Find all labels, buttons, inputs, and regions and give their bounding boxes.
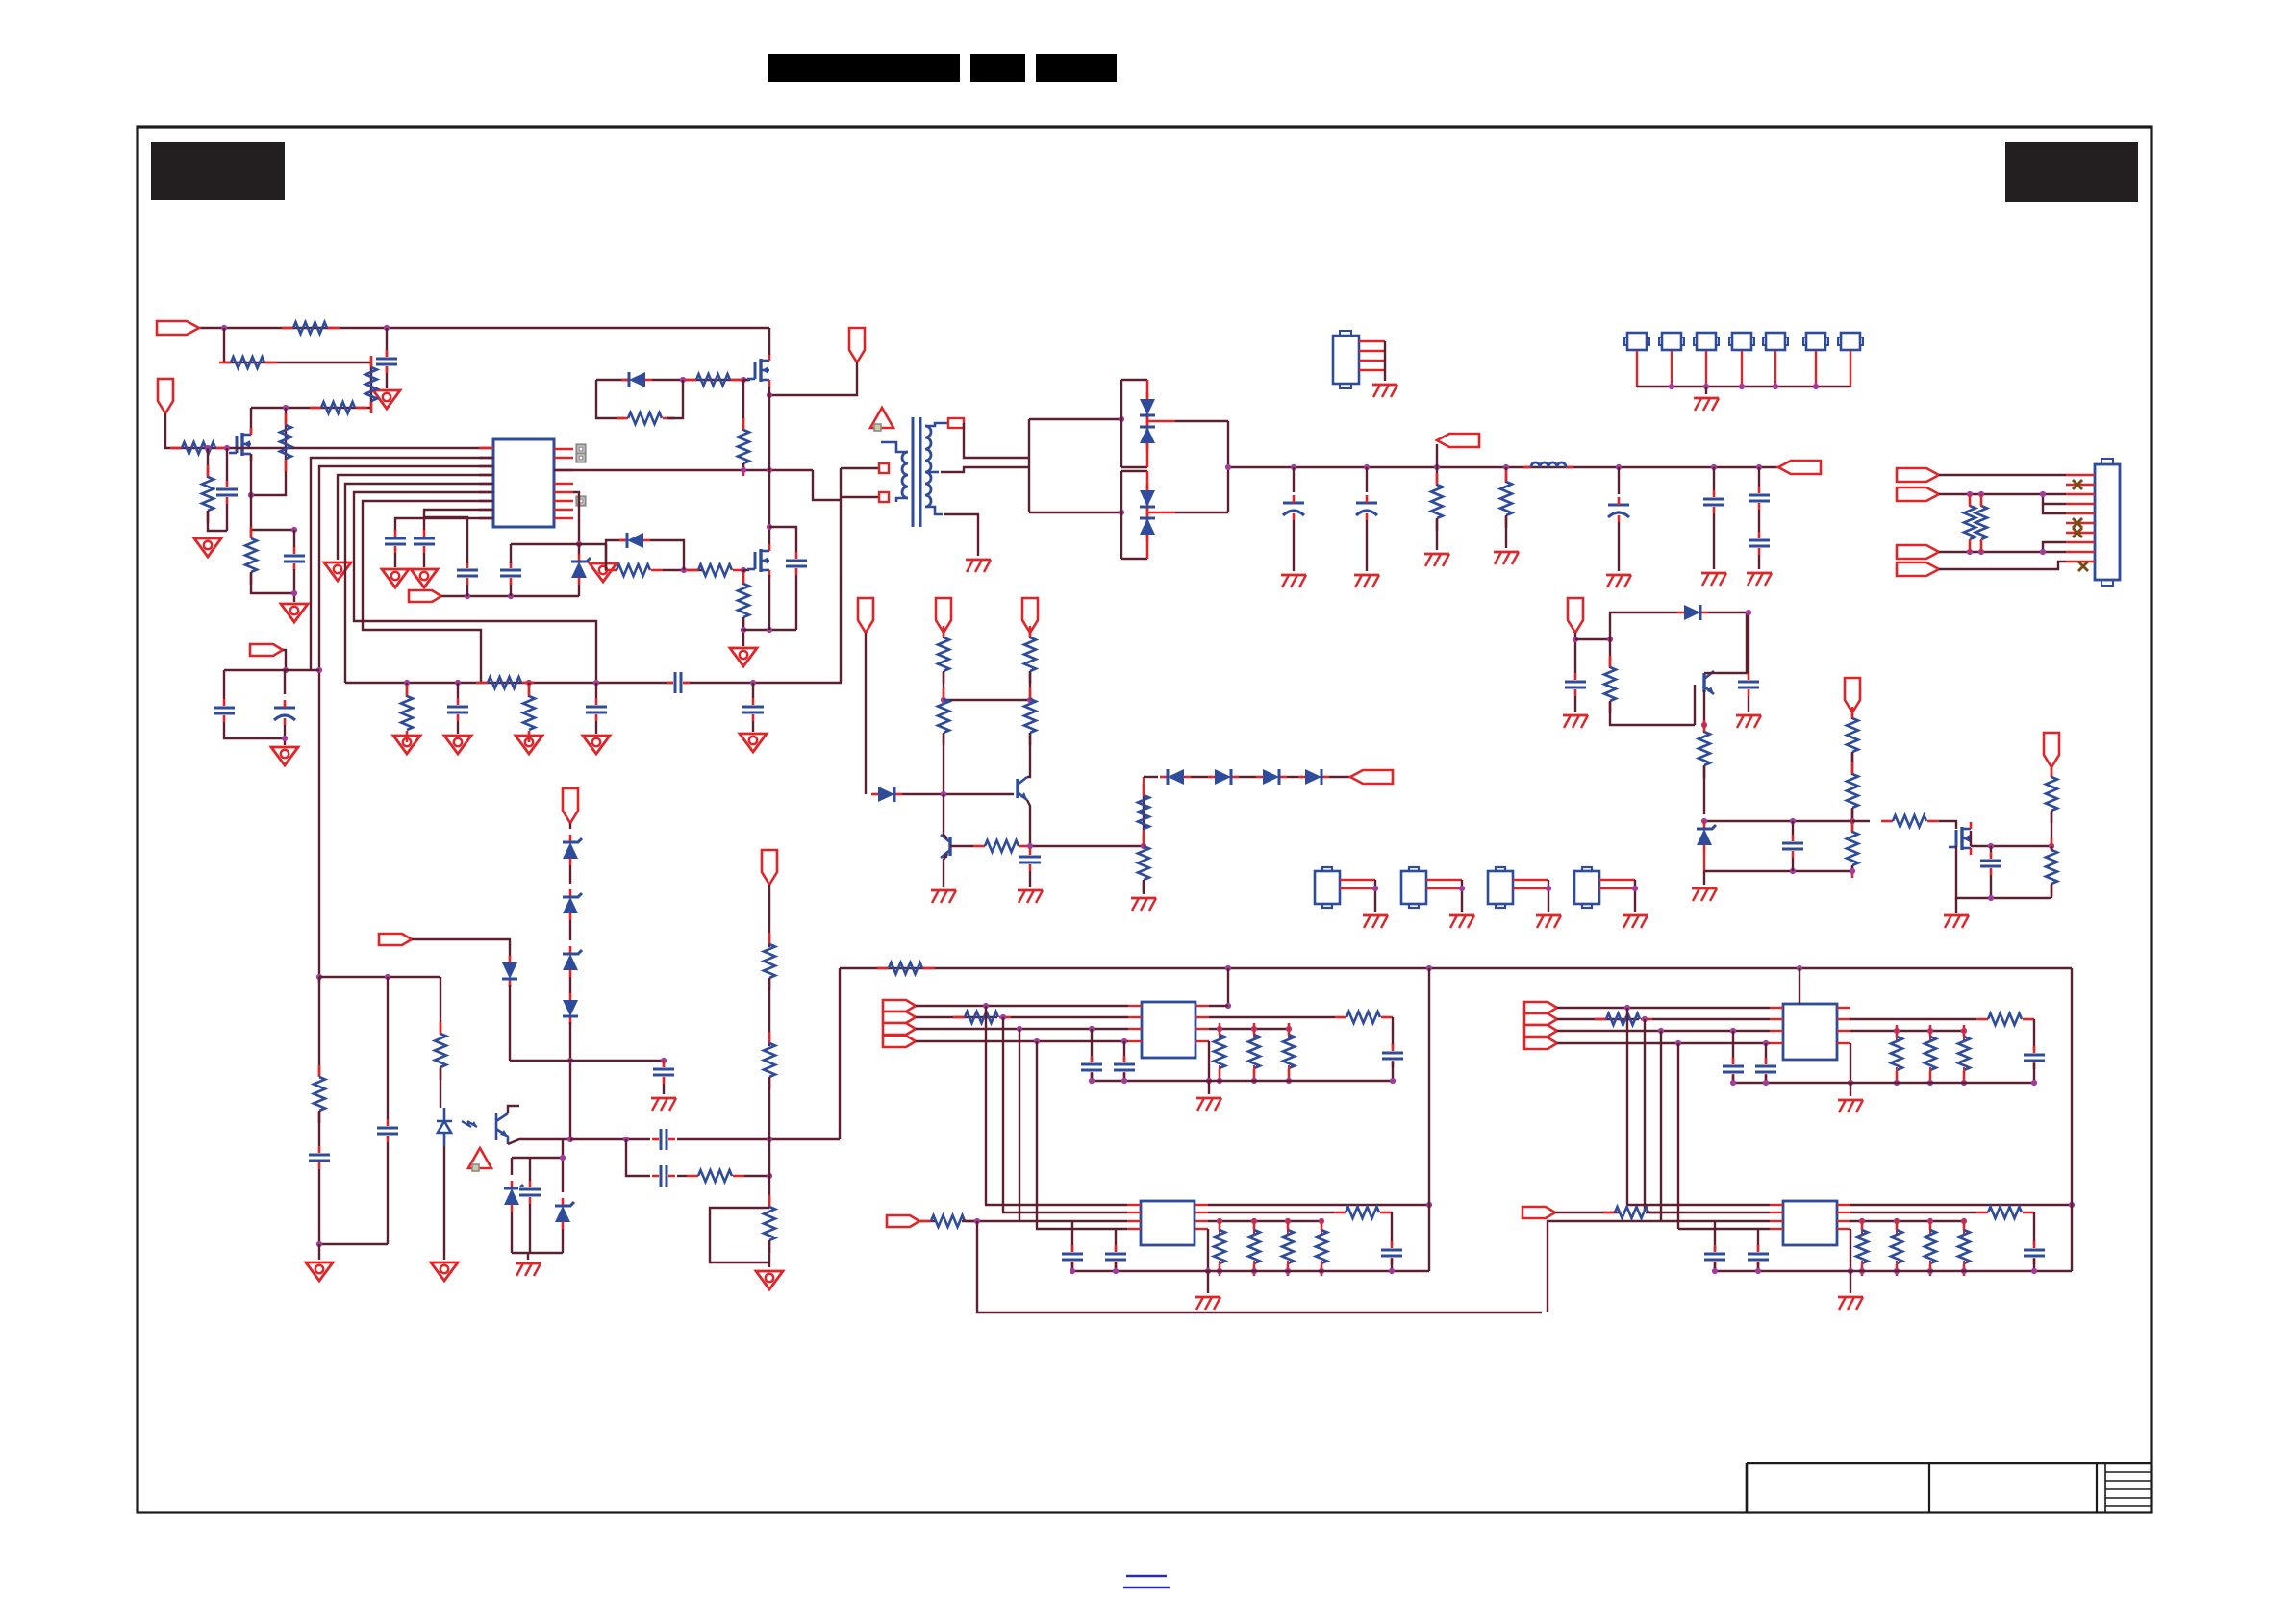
junction (455, 680, 461, 686)
wire diode chain (1144, 776, 1158, 778)
pin regb L3 (1770, 1220, 1783, 1222)
jumper JV4 (1574, 867, 1599, 908)
wire col458 (440, 977, 441, 1035)
earth ground (966, 560, 991, 572)
wire cn loop2 (2043, 542, 2066, 552)
wire regb r2 (1850, 1212, 1976, 1213)
wire c branch3 b (752, 721, 754, 732)
pin U1 left y503 (479, 483, 493, 486)
junction (1426, 965, 1432, 971)
wire opto out row (508, 1139, 570, 1144)
wire auxr col3 (1851, 808, 1853, 821)
resistor R loadb (1316, 1218, 1327, 1276)
wire br1566 (1505, 467, 1507, 483)
earth ground (1449, 915, 1474, 928)
wire refcol2 (509, 985, 511, 1061)
wire regb l2 (1002, 1212, 1127, 1213)
wire fb loop left (223, 670, 225, 699)
wire rect right col (1227, 421, 1229, 512)
rfbd stub (1143, 846, 1145, 847)
earth ground (1701, 573, 1726, 586)
wire caux2 top (1748, 612, 1749, 673)
wire M1 source col (768, 387, 770, 546)
resistor R load (1891, 1025, 1902, 1083)
pin J2 (1636, 351, 1638, 387)
pin reg R4 (1195, 1040, 1209, 1042)
junction (1894, 1218, 1900, 1224)
inductor L out (1523, 462, 1573, 467)
junction (526, 680, 532, 686)
rb stub2 (1287, 1261, 1289, 1271)
earth ground (1018, 890, 1043, 903)
wire caux2 bot (1748, 696, 1749, 712)
pin JP1 1 (1359, 340, 1385, 342)
link underline 2 (1123, 1587, 1170, 1589)
wire col800b (768, 1240, 770, 1267)
wire reg tap4 (1036, 1041, 1038, 1229)
wire zen col2 (578, 585, 580, 596)
wire row2 (224, 328, 371, 362)
wire loop800 (710, 1208, 769, 1262)
junction (1848, 1080, 1853, 1086)
wire reg r2c (2033, 1063, 2035, 1083)
wire tapA red (1147, 420, 1175, 423)
diode D ch4 (1298, 769, 1329, 785)
wire M1 drain (768, 328, 770, 355)
capacitor C out4 (1702, 490, 1725, 513)
diode D fb (871, 787, 902, 802)
wire fb out row (1031, 845, 1144, 847)
pin reg R2 (1195, 1016, 1209, 1018)
wire reg capcol (1765, 1043, 1767, 1063)
resistor R row3 (310, 402, 367, 413)
ground (411, 569, 438, 587)
pin CN y504 (2066, 484, 2095, 486)
junction (1813, 384, 1819, 389)
rb stub (1929, 1221, 1931, 1234)
jumper J2 (1624, 333, 1649, 350)
junction (567, 1137, 573, 1142)
wire row1223 (626, 1139, 650, 1176)
junction (1797, 965, 1802, 971)
resistor R comp (476, 677, 534, 688)
net flag CN b (1897, 487, 1939, 501)
wire fb row (224, 669, 319, 671)
wire zl2 (569, 865, 571, 884)
wire c branch b (457, 721, 459, 734)
page border (138, 127, 2152, 1512)
no-connect X (2073, 480, 2082, 489)
wire regb l1 (985, 1204, 1127, 1206)
junction (1027, 697, 1033, 703)
redaction bar 3 (1036, 54, 1117, 82)
wire regb gnd (1207, 1271, 1209, 1293)
wire rect innerA (1120, 380, 1122, 467)
wire reg capcol2 (1765, 1075, 1767, 1083)
wire ss capB top (510, 544, 512, 563)
wire gate pulldown hi b (742, 463, 744, 470)
junction (1756, 464, 1762, 470)
junction (741, 567, 746, 573)
transistor Q aux (NPN) (1704, 671, 1714, 694)
wire zb left2 (511, 1212, 513, 1253)
wire rm3c bot (2051, 884, 2052, 898)
wire regb riser (1548, 1221, 1770, 1312)
junction (1703, 384, 1709, 389)
junction (1372, 886, 1378, 891)
wire sec bot (944, 514, 978, 556)
ground (306, 1262, 333, 1281)
pin JV4 b (1599, 887, 1635, 889)
pin J3 (1671, 351, 1673, 387)
wire lo snub right (650, 540, 684, 570)
wire q coll (1704, 672, 1718, 674)
net flag SS (409, 590, 441, 602)
wire upper snub top2 (652, 379, 750, 381)
diode D rect1a (1140, 392, 1155, 423)
wire reg capcol2 (1123, 1073, 1125, 1081)
junction (316, 667, 322, 673)
rb stub2 (1963, 1261, 1965, 1271)
rb stub (1861, 1221, 1863, 1234)
pin JV1 b (1340, 887, 1375, 889)
pin reg L1 (1770, 1007, 1783, 1009)
pin U1 left y466 (479, 447, 493, 450)
wire regb r1 (1850, 1204, 2072, 1206)
rb stub2 (1896, 1261, 1898, 1271)
no-connect X (2073, 518, 2082, 528)
wire sec top (964, 423, 1029, 458)
wire rect innerB (1120, 471, 1122, 559)
junction (1225, 965, 1231, 971)
net flag vreg (762, 850, 777, 885)
wire comp row2 (481, 682, 842, 684)
wire reg gnd (1208, 1081, 1210, 1094)
capacitor C reg out (1381, 1044, 1404, 1067)
resistor R fb3 (1024, 626, 1036, 684)
wire q2 base row (950, 845, 973, 847)
wire reg tap3 (1019, 1029, 1020, 1221)
junction (1850, 868, 1855, 874)
wire reg tap2 (1644, 1019, 1646, 1212)
wire JV3 (1548, 880, 1549, 912)
zener D prot2 (571, 554, 591, 585)
net flag reg in3 (883, 1023, 916, 1035)
wire regb capcol2 (1714, 1262, 1716, 1271)
junction (1894, 1080, 1900, 1086)
resistor R regb in (919, 1215, 977, 1227)
wire prim bot (841, 496, 879, 498)
junction (661, 1058, 667, 1063)
junction (1503, 464, 1509, 470)
wire row1007 main (840, 967, 2072, 969)
wire zb left (511, 1158, 513, 1175)
junction (1286, 1078, 1292, 1084)
wire row1223c (744, 1175, 769, 1177)
zener D zb1 (504, 1181, 523, 1212)
junction (465, 593, 470, 599)
pin JV2 b (1426, 887, 1462, 889)
wire regb l4 (1678, 1228, 1770, 1230)
junction (283, 405, 289, 411)
ground (1736, 715, 1761, 728)
pin JP1 4 (1359, 369, 1385, 371)
resistor R gate (170, 442, 228, 454)
junction (1961, 1218, 1967, 1224)
r stub2 (1253, 1065, 1255, 1081)
resistor R gd hi (738, 418, 749, 476)
wire regb l1 (1627, 1204, 1770, 1206)
wire br1345b (1293, 520, 1295, 571)
rb stub (1287, 1221, 1289, 1234)
wire br1782 (1713, 467, 1715, 490)
diode D ref2 (502, 956, 517, 987)
junction (983, 1003, 989, 1009)
wire M2 source col (768, 575, 770, 630)
pin U1 right y512 (554, 491, 573, 494)
earth ground (1536, 915, 1561, 928)
earth ground (1195, 1297, 1220, 1310)
earth ground (1131, 898, 1156, 911)
zener D zl1 (563, 835, 582, 865)
wire zb right (562, 1158, 564, 1192)
net flag sense (1437, 434, 1479, 447)
net flag HV (849, 328, 865, 362)
junction (1859, 1268, 1865, 1274)
r stub (1219, 1029, 1220, 1038)
wire auxr col2 (1851, 752, 1853, 775)
capacitor C out2 (polarized) (1355, 495, 1378, 520)
r stub (1288, 1029, 1290, 1038)
capacitor C fb1 (213, 699, 236, 722)
wire col332 down3 (319, 1169, 388, 1244)
wire upper snub right (667, 380, 683, 418)
resistor R load (1214, 1023, 1225, 1081)
wire pin4 nest (338, 475, 493, 560)
wire regb r2b (2033, 1212, 2035, 1245)
junction (681, 567, 687, 573)
zener D ref (1697, 821, 1716, 852)
wire opto row (570, 1138, 650, 1140)
wire lo pulldown b (742, 617, 744, 646)
junction (1927, 1028, 1933, 1034)
capacitor C reg out (2023, 1046, 2046, 1069)
link underline 1 (1126, 1575, 1167, 1578)
ground (583, 736, 610, 754)
resistor R aux4 (1847, 762, 1858, 820)
wire col800 mid (768, 978, 770, 1046)
junction (1000, 1014, 1006, 1020)
capacitor C ss1 (456, 562, 479, 585)
wire regb r2b (1391, 1212, 1393, 1245)
net flag FB (250, 644, 283, 656)
junction (1251, 1078, 1257, 1084)
wire zb right2 (562, 1229, 564, 1253)
wire dch4 (1329, 776, 1350, 778)
r stub2 (1896, 1067, 1898, 1083)
junction (508, 593, 514, 599)
rb stub2 (1253, 1261, 1255, 1271)
wire row2 down (251, 362, 371, 408)
wire cfb bot (1029, 871, 1031, 887)
net flag fb2 (936, 598, 951, 633)
jumper J5 (1729, 333, 1754, 350)
junction (1632, 886, 1638, 891)
pin U1 right y467 (554, 448, 573, 451)
wire zb bot (512, 1252, 563, 1254)
resistor R fb4 (938, 687, 949, 745)
transformer T1 (879, 417, 964, 527)
junction (1319, 1218, 1324, 1224)
junction (2069, 1202, 2075, 1208)
junction (767, 1137, 772, 1142)
pin U1 right y521 (554, 500, 573, 503)
warning triangle (468, 1148, 491, 1171)
pin U1 left y530 (479, 509, 493, 512)
wire q emit3 (1703, 765, 1705, 814)
earth ground (1196, 1098, 1221, 1111)
wire reg tap4 (1677, 1043, 1679, 1229)
transistor Q fb1 (NPN) (1018, 777, 1027, 800)
ground (516, 1263, 541, 1276)
resistor R regb in (1603, 1207, 1661, 1218)
wire tapB red (1147, 512, 1175, 514)
resistor R fbb (973, 840, 1031, 852)
wire regb drop (977, 1221, 1542, 1312)
junction (1113, 1268, 1119, 1274)
wire regb r2c (1391, 1259, 1393, 1271)
wire snub cap top (769, 527, 796, 552)
wire zrow2 (1704, 870, 1852, 872)
wire cn2 (1939, 493, 2066, 495)
net flag m3 (2044, 733, 2059, 767)
r stub2 (1219, 1065, 1220, 1081)
wire flag drop (165, 413, 174, 448)
net flag CN d (1897, 562, 1939, 576)
pin reg L3 (1770, 1030, 1783, 1032)
rfbc stub (1143, 777, 1145, 796)
ground (194, 538, 221, 557)
wire cn loop1 (2043, 494, 2066, 504)
wire m3 flag col (2051, 767, 2052, 778)
junction (1669, 384, 1674, 389)
junction (1755, 1268, 1761, 1274)
resistor R col800 (764, 1195, 775, 1253)
wire reg l4 (1557, 1042, 1770, 1044)
junction (1927, 1080, 1933, 1086)
wire row566 (511, 543, 606, 545)
junction (248, 492, 254, 498)
junction (1206, 1078, 1212, 1084)
wire reg feed2 (1209, 1005, 1228, 1007)
wire gate row pin1 (174, 447, 493, 449)
junction (1119, 510, 1124, 515)
wire regb capcol (1115, 1229, 1117, 1251)
junction (767, 627, 772, 633)
wire regb r2 (1208, 1212, 1334, 1213)
junction (2049, 843, 2054, 849)
capacitor C reg (1722, 1058, 1745, 1081)
resistor R gate hi (685, 374, 742, 386)
wire flag hv (769, 362, 857, 395)
junction (1319, 1268, 1324, 1274)
wire opto row2 (677, 1138, 840, 1140)
junction (283, 667, 289, 673)
wire aux col (1574, 633, 1576, 673)
capacitor C out6 (1748, 532, 1771, 555)
junction (767, 392, 772, 398)
wire m3 chan (1970, 831, 1972, 846)
wire fb loop right b (284, 725, 286, 745)
earth ground (1372, 385, 1397, 397)
junction (1285, 1218, 1291, 1224)
junction (1205, 1268, 1211, 1274)
wire rect loopA top (1121, 379, 1147, 381)
stub r1 top (1969, 494, 1971, 507)
wire zen col (578, 544, 580, 555)
wire col403 (387, 977, 389, 1119)
wire dch3 (1287, 776, 1298, 778)
junction (1286, 1026, 1292, 1032)
junction (1988, 895, 1994, 901)
wire aux rb (1610, 701, 1695, 725)
net flag reg in3 (1524, 1025, 1557, 1037)
junction (1773, 384, 1778, 389)
resistor R m3 (1881, 815, 1939, 827)
jumper JV2 (1401, 867, 1426, 908)
pin reg L1 (1128, 1005, 1142, 1007)
capacitor C fbk2 (376, 1119, 399, 1142)
jumper J8 (1838, 333, 1863, 350)
earth ground (1623, 915, 1648, 928)
wire R8 chain (251, 408, 286, 495)
wire q emit (1703, 690, 1705, 725)
wire gate pulldown hi (742, 380, 744, 431)
wire reg r3 (1209, 1028, 1289, 1030)
capacitor C ds (785, 552, 808, 575)
wire aux r (1609, 639, 1611, 668)
wire под C4 (394, 553, 396, 567)
title redaction box top-right (2005, 142, 2138, 202)
wire dch1 (1191, 776, 1208, 778)
wire under R9 (251, 572, 294, 593)
wire lo snub left (606, 540, 625, 570)
capacitor C fb (1019, 848, 1042, 871)
jumper J4 (1694, 333, 1719, 350)
wire pin8 nest (424, 510, 493, 531)
junction (1961, 1268, 1967, 1274)
wire col458b (440, 1067, 441, 1108)
wire rect loopB bot (1121, 558, 1147, 560)
wire fbcol3 (1029, 633, 1031, 638)
junction (205, 445, 211, 451)
junction (1927, 1268, 1933, 1274)
wire reg r4 (1850, 1043, 1851, 1083)
wire m3 out row (1971, 845, 2051, 847)
wire cap branch (386, 328, 388, 388)
wire reg r4 (1208, 1041, 1210, 1081)
wire JV2 (1461, 880, 1463, 912)
junction (1763, 1080, 1769, 1086)
wire regb capcol2 (1757, 1262, 1759, 1271)
wire dch2 (1239, 776, 1256, 778)
junction (576, 541, 582, 547)
resistor R loadb (1248, 1218, 1260, 1276)
wire br1683b (1618, 522, 1620, 571)
junction (1711, 464, 1717, 470)
junction (1967, 491, 1973, 497)
junction (1217, 1218, 1222, 1224)
